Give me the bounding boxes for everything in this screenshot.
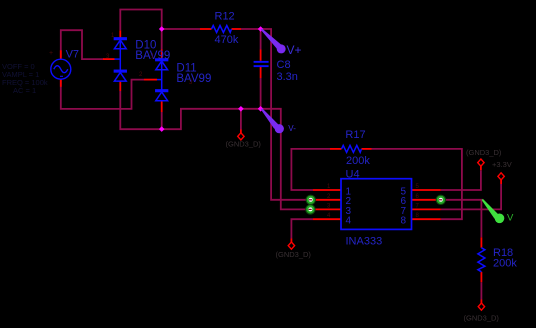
svg-text:200k: 200k — [493, 258, 517, 270]
node J5 — [159, 126, 165, 132]
node J3 — [238, 106, 244, 112]
diode D11 (dual BAV99) — [156, 59, 168, 101]
pin stub R12 left — [200, 28, 212, 30]
svg-text:V-: V- — [288, 124, 296, 133]
pin stub R12 right — [232, 28, 242, 30]
svg-text:(GND3_D): (GND3_D) — [276, 250, 312, 259]
diode D10 (dual BAV99) — [114, 38, 126, 81]
pin stub D10 top — [119, 30, 121, 38]
svg-text:U4: U4 — [346, 169, 360, 181]
svg-text:200k: 200k — [346, 155, 370, 167]
pin stub D11 top — [161, 50, 163, 60]
pin stub U4 pin4 — [313, 218, 341, 220]
svg-text:V: V — [507, 213, 514, 224]
pin stub D11 bottom — [161, 101, 163, 112]
pin stub U4 pin6 — [412, 199, 438, 201]
op-amp U4 INA333 body — [341, 179, 412, 230]
wire R12 right to node J2 — [241, 28, 261, 30]
wire U4 pin7 to terminal T2 — [441, 184, 501, 209]
pin stub U4 pin8 — [412, 218, 441, 220]
svg-text:(GND3_D): (GND3_D) — [466, 148, 502, 157]
wire J1 down to D11 top — [161, 29, 163, 50]
svg-text:4: 4 — [346, 216, 352, 227]
pin stub D11 center tap — [144, 79, 157, 81]
ammeter bubble on U4 pin3 — [305, 204, 315, 214]
pin stub R18 bottom — [480, 272, 482, 282]
pin stub U4 pin1 — [313, 189, 341, 191]
wire C8 top lead — [260, 29, 262, 50]
pin stub T2 terminal — [500, 180, 502, 184]
wire D11 bottom to J5 — [161, 112, 163, 129]
svg-text:(GND3_D): (GND3_D) — [226, 140, 262, 149]
svg-text:C8: C8 — [277, 59, 291, 71]
node J4 — [258, 106, 264, 112]
capacitor C8 — [254, 61, 269, 67]
pin stub GND1 terminal — [240, 130, 242, 134]
svg-text:V+: V+ — [287, 43, 302, 57]
wire U4 pin4 to ground terminal — [291, 219, 313, 238]
svg-text:R17: R17 — [345, 129, 365, 141]
pin stub GND2 terminal — [290, 239, 292, 243]
wire top loop from D10 top to node J1 — [120, 10, 161, 31]
wire R18 bottom to ground terminal — [480, 282, 482, 299]
svg-text:AC = 1: AC = 1 — [13, 86, 36, 95]
node J1 — [159, 26, 165, 32]
svg-text:INA333: INA333 — [346, 236, 383, 248]
wire J1 to R12 left — [162, 28, 200, 30]
wire R17 right to U4 pin8 — [372, 149, 462, 219]
svg-text:(GND3_D): (GND3_D) — [464, 314, 500, 323]
pin stub C8 top — [260, 50, 262, 61]
wire U4 pin6 down to R18 top — [443, 200, 481, 238]
wire R17 left to U4 pin1 — [291, 149, 330, 190]
svg-text:3.3n: 3.3n — [277, 71, 298, 83]
pin stub U4 pin3 — [313, 208, 341, 210]
voltage probe v output — [482, 199, 505, 223]
ground terminal GND1 — [238, 133, 244, 140]
pin stub C8 bottom — [260, 67, 262, 78]
pin stub U4 pin5 — [412, 189, 441, 191]
pin stub R17 right — [362, 148, 372, 150]
svg-text:V7: V7 — [66, 49, 79, 61]
ground terminal GND2 — [288, 242, 294, 249]
terminal T2 supply — [498, 173, 504, 180]
pin stub D10 center tap — [103, 58, 115, 60]
wire J3 to ground terminal stem — [240, 109, 242, 130]
pin stub D10 bottom — [119, 81, 121, 91]
wire D10 bottom to node J5 — [120, 91, 161, 129]
ground terminal GND3 — [478, 303, 484, 310]
pin stub R17 left — [330, 148, 342, 150]
wire U4 pin5 to terminal T1 — [441, 170, 481, 190]
pin stub V7 top — [60, 50, 62, 59]
voltage probe V- — [261, 108, 284, 133]
pin stub T1 terminal — [480, 166, 482, 170]
pin stub GND3 terminal — [480, 300, 482, 304]
resistor R18 — [478, 248, 485, 272]
pin stub U4 pin7 — [412, 208, 441, 210]
svg-text:R12: R12 — [215, 11, 235, 23]
ammeter bubble on U4 pin2 — [306, 195, 316, 205]
resistor R12 — [212, 26, 232, 33]
pin stub U4 pin2 — [313, 199, 341, 201]
terminal T1 REF — [478, 159, 484, 166]
wire V7 top to D10 center tap — [61, 30, 104, 59]
node J2 — [258, 26, 264, 32]
ammeter bubble on U4 pin6 — [436, 195, 446, 205]
resistor R17 — [342, 145, 362, 152]
wire C8 bottom lead to J4 — [260, 78, 262, 109]
wire bottom rail J5 to U4 pin3 — [162, 109, 313, 210]
svg-text:470k: 470k — [215, 34, 239, 46]
voltage source V7 — [51, 59, 71, 79]
svg-text:BAV99: BAV99 — [176, 73, 211, 85]
voltage probe V+ — [261, 29, 286, 54]
wire V7 bottom to D11 center tap — [61, 79, 144, 109]
svg-text:+3.3V: +3.3V — [492, 160, 512, 169]
pin stub R18 top — [480, 237, 482, 247]
svg-text:+: + — [49, 50, 53, 57]
wire J2 down to U4 pin2 — [261, 29, 313, 200]
pin stub V7 bottom — [60, 79, 62, 87]
svg-text:8: 8 — [401, 216, 407, 227]
